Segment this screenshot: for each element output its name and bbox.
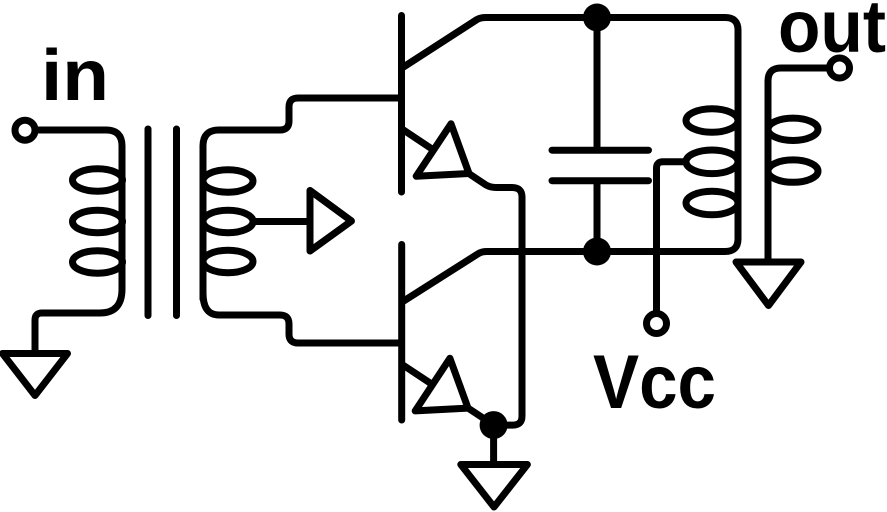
svg-text:Vcc: Vcc	[593, 340, 716, 425]
svg-text:in: in	[41, 36, 109, 116]
svg-text:out: out	[778, 0, 886, 68]
